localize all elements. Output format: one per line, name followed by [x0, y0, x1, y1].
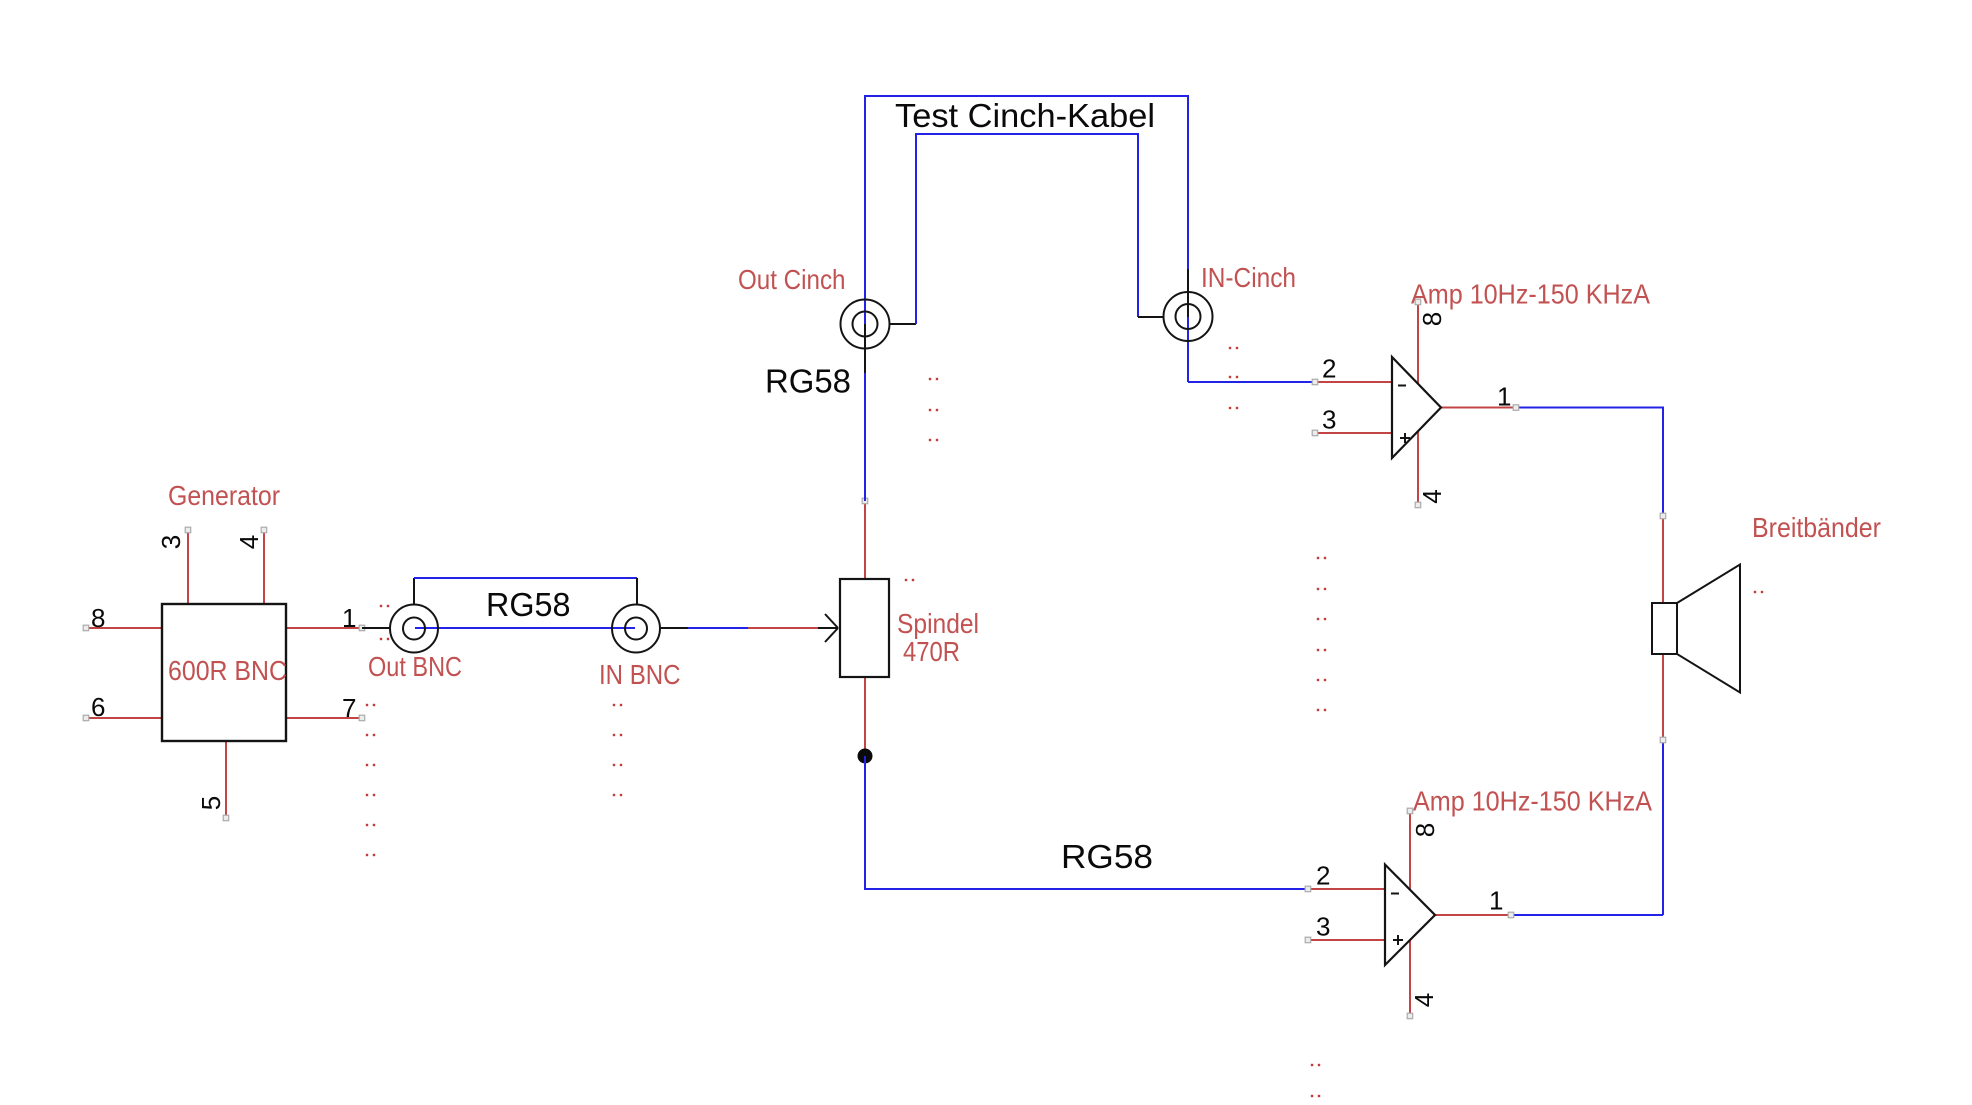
svg-text:3: 3 — [156, 535, 186, 549]
svg-text:IN BNC: IN BNC — [599, 659, 681, 690]
svg-text:2: 2 — [1316, 861, 1330, 891]
svg-text:2: 2 — [1322, 354, 1336, 384]
svg-text:IN-Cinch: IN-Cinch — [1201, 262, 1296, 293]
svg-text:Out Cinch: Out Cinch — [738, 264, 846, 295]
svg-text:Test Cinch-Kabel: Test Cinch-Kabel — [895, 97, 1155, 134]
svg-text:8: 8 — [91, 603, 105, 633]
svg-text:4: 4 — [1409, 993, 1439, 1007]
svg-text:1: 1 — [1497, 382, 1511, 412]
svg-text:600R BNC: 600R BNC — [168, 655, 287, 686]
svg-text:Out BNC: Out BNC — [368, 651, 462, 682]
svg-text:1: 1 — [1489, 886, 1503, 916]
svg-text:Breitbänder: Breitbänder — [1752, 512, 1881, 543]
svg-text:Amp 10Hz-150 KHzA: Amp 10Hz-150 KHzA — [1411, 279, 1650, 310]
svg-text:3: 3 — [1322, 405, 1336, 435]
svg-text:5: 5 — [196, 796, 226, 810]
svg-text:7: 7 — [342, 693, 356, 723]
svg-text:4: 4 — [234, 535, 264, 549]
svg-text:3: 3 — [1316, 912, 1330, 942]
svg-text:RG58: RG58 — [486, 586, 571, 623]
svg-text:8: 8 — [1410, 823, 1440, 837]
svg-text:4: 4 — [1417, 489, 1447, 503]
svg-text:Spindel: Spindel — [897, 608, 979, 639]
svg-text:Amp 10Hz-150 KHzA: Amp 10Hz-150 KHzA — [1413, 786, 1652, 817]
svg-text:1: 1 — [342, 603, 356, 633]
svg-text:8: 8 — [1417, 312, 1447, 326]
svg-text:RG58: RG58 — [765, 363, 851, 400]
svg-text:RG58: RG58 — [1061, 838, 1153, 875]
svg-text:6: 6 — [91, 692, 105, 722]
svg-text:470R: 470R — [903, 636, 960, 667]
svg-text:Generator: Generator — [168, 480, 280, 511]
